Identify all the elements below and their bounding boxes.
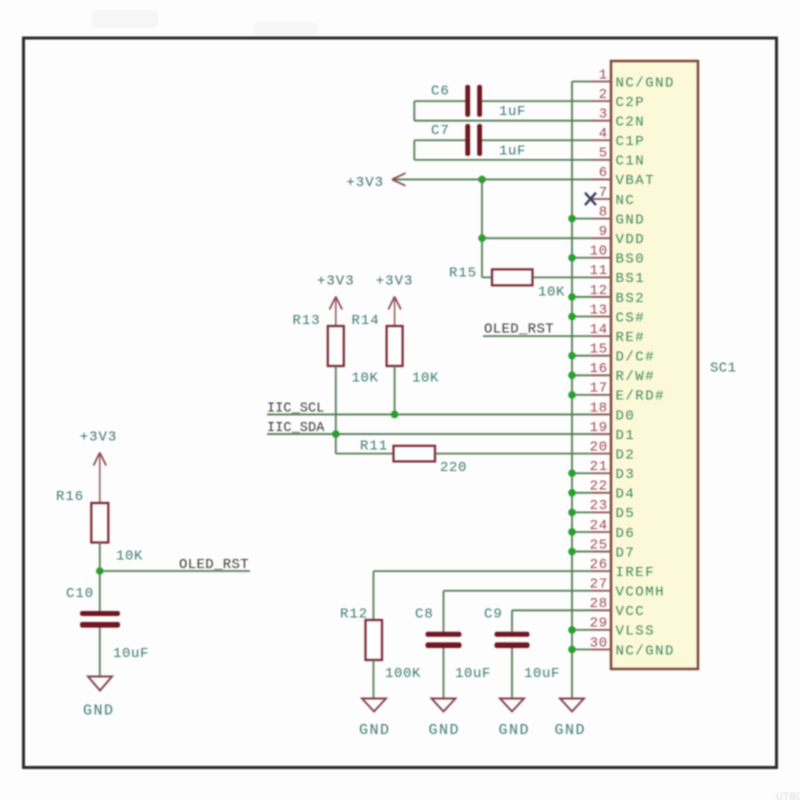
pin 16 stub (R/W#) — [592, 374, 611, 376]
wire R12 to GND — [373, 660, 375, 699]
pin 15 stub (D/C#) — [592, 355, 611, 357]
wire VCOMH row — [444, 590, 593, 592]
svg-text:+3V3: +3V3 — [376, 274, 414, 290]
svg-text:D7: D7 — [616, 545, 636, 561]
wire bus to pin 12 — [572, 296, 592, 298]
pin 9 stub (VDD) — [592, 237, 611, 239]
svg-text:+3V3: +3V3 — [317, 274, 355, 290]
svg-text:10uF: 10uF — [455, 666, 491, 682]
svg-text:8: 8 — [599, 204, 608, 220]
svg-text:18: 18 — [590, 400, 608, 416]
ground symbol (bus) — [560, 699, 584, 712]
power flag +3V3 arrow above R13 — [330, 297, 343, 310]
svg-text:2: 2 — [599, 87, 608, 103]
svg-text:GND: GND — [359, 722, 391, 739]
svg-text:D1: D1 — [616, 428, 636, 444]
svg-text:VLSS: VLSS — [616, 624, 656, 640]
resistor R12 body — [366, 620, 383, 660]
junction on bus at pin 29 — [568, 626, 576, 634]
pin 1 stub (NC/GND) — [592, 81, 611, 83]
pin 21 stub (D3) — [592, 472, 611, 474]
wire R11 right to D2 — [435, 453, 592, 455]
wire VCC row — [512, 609, 592, 611]
pin 27 stub (VCOMH) — [592, 590, 611, 592]
wire bus to pin 10 — [572, 257, 592, 259]
svg-text:C10: C10 — [66, 586, 94, 602]
R14 top lead — [394, 297, 396, 327]
wire bus to pin 25 — [572, 551, 592, 553]
svg-text:SC1: SC1 — [710, 361, 736, 377]
svg-text:IIC_SDA: IIC_SDA — [267, 421, 325, 436]
capacitor C9 plates — [495, 632, 530, 637]
svg-text:30: 30 — [590, 635, 608, 651]
svg-text:5: 5 — [599, 146, 608, 162]
wire down to C8 — [443, 591, 445, 632]
power flag +3V3 arrow above R14 — [388, 297, 401, 310]
junction on bus at pin 16 — [568, 371, 576, 379]
wire to R15 left lead — [482, 276, 492, 278]
svg-text:R11: R11 — [360, 439, 388, 455]
svg-text:C1N: C1N — [616, 154, 646, 170]
svg-text:25: 25 — [590, 537, 608, 553]
wire bus to pin 13 — [572, 316, 592, 318]
R13 top lead — [335, 297, 337, 327]
faint smudge — [92, 10, 158, 28]
ground symbol (C8) — [432, 699, 456, 712]
wire bus to pin 29 — [572, 629, 592, 631]
pin 13 stub (CS#) — [592, 316, 611, 318]
pin 8 stub (GND) — [592, 218, 611, 220]
svg-text:1uF: 1uF — [499, 104, 526, 120]
svg-text:VBAT: VBAT — [616, 173, 656, 189]
svg-text:27: 27 — [590, 577, 608, 593]
wire ground bus vertical — [571, 82, 573, 699]
svg-text:BS1: BS1 — [616, 271, 646, 287]
pin 17 stub (E/RD#) — [592, 394, 611, 396]
svg-text:29: 29 — [590, 616, 608, 632]
wire R15 right to BS1 — [533, 276, 593, 278]
R13 bottom wire — [335, 366, 337, 434]
svg-text:R14: R14 — [352, 313, 380, 329]
ground symbol (R12) — [362, 699, 386, 712]
svg-text:D2: D2 — [616, 447, 636, 463]
junction on bus at pin 12 — [568, 293, 576, 301]
svg-text:23: 23 — [590, 498, 608, 514]
svg-text:NC/GND: NC/GND — [616, 643, 675, 659]
wire VDD row — [482, 237, 592, 239]
svg-text:+3V3: +3V3 — [80, 430, 118, 446]
svg-text:10uF: 10uF — [524, 666, 560, 682]
svg-text:C7: C7 — [431, 123, 450, 139]
wire VBAT row — [393, 178, 592, 180]
svg-text:1: 1 — [599, 67, 608, 83]
resistor R13 body — [328, 326, 344, 366]
wire to R11 left — [336, 453, 394, 455]
wire bus to pin 23 — [572, 511, 592, 513]
svg-text:4: 4 — [599, 126, 608, 142]
pin 3 stub (C2N) — [592, 120, 611, 122]
wire C9 to GND — [511, 648, 513, 699]
svg-text:IREF: IREF — [616, 565, 656, 581]
pin 7 stub (NC) — [592, 198, 611, 200]
wire +3V3 rail vertical — [481, 179, 483, 277]
svg-text:1uF: 1uF — [499, 143, 526, 159]
svg-text:9: 9 — [599, 224, 608, 240]
svg-text:D3: D3 — [616, 467, 636, 483]
wire C8 to GND — [443, 648, 445, 699]
svg-text:BS0: BS0 — [616, 252, 646, 268]
wire C7 left jog — [413, 140, 415, 160]
wire down to C9 — [511, 610, 513, 631]
svg-text:R15: R15 — [449, 266, 477, 282]
wire bus to pin 30 — [572, 648, 592, 650]
svg-text:D4: D4 — [616, 487, 636, 503]
resistor R11 body — [394, 446, 436, 462]
svg-text:NC: NC — [616, 193, 636, 209]
wire down to R12 — [373, 571, 375, 620]
wire R16 to C10 — [99, 543, 101, 612]
capacitor C10 plates — [80, 611, 120, 616]
svg-text:28: 28 — [590, 596, 608, 612]
pin 29 stub (VLSS) — [592, 629, 611, 631]
svg-text:C1P: C1P — [616, 134, 646, 150]
resistor R16 body — [91, 503, 108, 543]
junction R14/IIC_SCL — [391, 411, 399, 419]
junction VBAT/+3V3 rail — [478, 176, 486, 184]
pin 10 stub (BS0) — [592, 257, 611, 259]
svg-text:UTBC: UTBC — [776, 792, 800, 800]
svg-text:3: 3 — [599, 106, 608, 122]
pin 28 stub (VCC) — [592, 609, 611, 611]
pin 4 stub (C1P) — [592, 139, 611, 141]
svg-text:R16: R16 — [56, 489, 84, 505]
wire C7 bottom — [414, 159, 592, 161]
wire bus to pin 17 — [572, 394, 592, 396]
power flag +3V3 arrow at VBAT — [392, 173, 406, 186]
svg-text:D6: D6 — [616, 526, 636, 542]
svg-text:15: 15 — [590, 342, 608, 358]
svg-text:220: 220 — [440, 460, 467, 476]
junction on bus at pin 17 — [568, 391, 576, 399]
pin 14 stub (RE#) — [592, 335, 611, 337]
svg-text:RE#: RE# — [616, 330, 646, 346]
wire C10 to GND — [99, 628, 101, 677]
wire OLED_RST to RE# — [483, 335, 592, 337]
ground symbol (C9) — [500, 699, 524, 712]
wire IREF row — [374, 570, 593, 572]
wire pin1 to bus — [572, 81, 592, 83]
svg-text:20: 20 — [590, 439, 608, 455]
svg-text:R/W#: R/W# — [616, 369, 656, 385]
IC U1 SC1 body — [611, 61, 698, 669]
svg-text:R13: R13 — [293, 313, 321, 329]
pin 20 stub (D2) — [592, 453, 611, 455]
svg-text:10uF: 10uF — [113, 646, 149, 662]
pin 12 stub (BS2) — [592, 296, 611, 298]
svg-text:21: 21 — [590, 459, 608, 475]
pin 23 stub (D5) — [592, 511, 611, 513]
svg-text:22: 22 — [590, 479, 608, 495]
svg-text:IIC_SCL: IIC_SCL — [267, 402, 324, 417]
svg-text:GND: GND — [429, 722, 461, 739]
capacitor C6 plates — [465, 85, 470, 117]
svg-text:CS#: CS# — [616, 310, 646, 326]
svg-text:R12: R12 — [340, 607, 368, 623]
svg-text:C2P: C2P — [616, 95, 646, 111]
svg-text:10K: 10K — [116, 549, 143, 565]
svg-text:100K: 100K — [385, 666, 421, 682]
svg-text:D0: D0 — [616, 408, 636, 424]
junction on bus at pin 22 — [568, 489, 576, 497]
junction R13/IIC_SDA — [332, 430, 340, 438]
wire C7 top left — [414, 139, 466, 141]
junction on bus at pin 15 — [568, 352, 576, 360]
pin 2 stub (C2P) — [592, 100, 611, 102]
wire C6 top left — [414, 100, 466, 102]
wire R13 node down to R11 row — [335, 434, 337, 454]
wire C7 top right — [480, 139, 592, 141]
svg-text:C6: C6 — [431, 84, 450, 100]
resistor R14 body — [387, 326, 403, 366]
svg-text:12: 12 — [590, 283, 608, 299]
svg-text:C9: C9 — [484, 607, 503, 623]
faint smudge — [253, 22, 319, 36]
power flag +3V3 arrow above R16 — [94, 453, 107, 466]
svg-text:10K: 10K — [538, 285, 565, 301]
svg-text:BS2: BS2 — [616, 291, 646, 307]
svg-text:GND: GND — [499, 722, 531, 739]
svg-text:VCOMH: VCOMH — [616, 585, 666, 601]
svg-text:14: 14 — [590, 322, 608, 338]
pin 30 stub (NC/GND) — [592, 648, 611, 650]
svg-text:19: 19 — [590, 420, 608, 436]
wire bus to pin 24 — [572, 531, 592, 533]
wire bus to pin 8 — [572, 218, 592, 220]
svg-text:NC/GND: NC/GND — [616, 75, 675, 91]
svg-text:26: 26 — [590, 557, 608, 573]
wire bus to pin 15 — [572, 355, 592, 357]
pin 24 stub (D6) — [592, 531, 611, 533]
svg-text:C2N: C2N — [616, 114, 646, 130]
ground symbol (left) — [88, 677, 112, 691]
svg-text:VDD: VDD — [616, 232, 646, 248]
pin 5 stub (C1N) — [592, 159, 611, 161]
svg-text:10K: 10K — [352, 371, 379, 387]
svg-text:10K: 10K — [412, 371, 439, 387]
pin 11 stub (BS1) — [592, 276, 611, 278]
svg-text:10: 10 — [590, 244, 608, 260]
junction on bus at pin 25 — [568, 548, 576, 556]
junction VDD row — [478, 234, 486, 242]
pin 26 stub (IREF) — [592, 570, 611, 572]
pin 25 stub (D7) — [592, 551, 611, 553]
capacitor C7 plates — [465, 124, 470, 156]
junction on bus at pin 23 — [568, 509, 576, 517]
svg-text:17: 17 — [590, 381, 608, 397]
pin 18 stub (D0) — [592, 413, 611, 415]
svg-text:GND: GND — [555, 722, 587, 739]
svg-text:C8: C8 — [415, 607, 434, 623]
svg-text:16: 16 — [590, 361, 608, 377]
wire IIC_SCL to D0 — [267, 413, 592, 415]
svg-text:D5: D5 — [616, 506, 636, 522]
pin 6 stub (VBAT) — [592, 178, 611, 180]
svg-text:+3V3: +3V3 — [346, 175, 384, 191]
pin 22 stub (D4) — [592, 492, 611, 494]
svg-text:GND: GND — [616, 212, 646, 228]
no-connect X on pin 7 — [585, 193, 596, 205]
R14 bottom wire — [394, 366, 396, 414]
svg-text:OLED_RST: OLED_RST — [484, 322, 554, 338]
pin 19 stub (D1) — [592, 433, 611, 435]
wire bus to pin 22 — [572, 492, 592, 494]
wire bus to pin 21 — [572, 472, 592, 474]
wire bus to pin 16 — [572, 374, 592, 376]
junction on bus at pin 30 — [568, 646, 576, 654]
junction on bus at pin 13 — [568, 313, 576, 321]
junction on bus at pin 21 — [568, 469, 576, 477]
wire OLED_RST left — [100, 570, 250, 572]
svg-text:GND: GND — [83, 703, 115, 720]
R16 top lead — [99, 453, 101, 504]
wire C6 bottom — [414, 120, 592, 122]
junction on bus at pin 10 — [568, 254, 576, 262]
resistor R15 body — [492, 269, 533, 285]
capacitor C8 plates — [426, 632, 462, 637]
svg-text:E/RD#: E/RD# — [616, 389, 666, 405]
svg-text:7: 7 — [599, 185, 608, 201]
svg-text:24: 24 — [590, 518, 608, 534]
svg-text:13: 13 — [590, 302, 608, 318]
junction on bus at pin 8 — [568, 215, 576, 223]
wire C6 top right — [480, 100, 592, 102]
wire C6 left jog — [413, 101, 415, 121]
svg-text:11: 11 — [590, 263, 608, 279]
svg-text:VCC: VCC — [616, 604, 646, 620]
junction on bus at pin 24 — [568, 528, 576, 536]
svg-text:D/C#: D/C# — [616, 350, 656, 366]
svg-text:6: 6 — [599, 165, 608, 181]
junction OLED_RST node — [96, 567, 104, 575]
wire IIC_SDA to D1 — [267, 433, 592, 435]
svg-text:OLED_RST: OLED_RST — [179, 557, 249, 573]
